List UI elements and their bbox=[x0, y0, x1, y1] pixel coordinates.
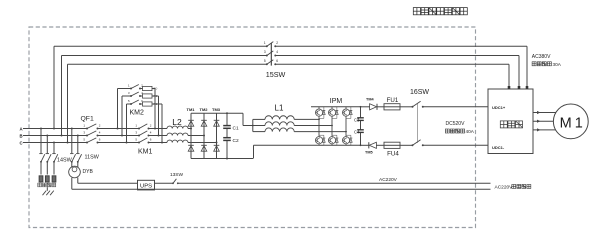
surge arrester 3 bbox=[52, 176, 56, 182]
svg-text:C2: C2 bbox=[233, 138, 239, 144]
UPS box bbox=[138, 180, 155, 190]
label UDC1- bbox=[492, 145, 505, 150]
label AC220V bbox=[379, 177, 398, 183]
wire DC+ jog down to splitter bbox=[243, 113, 253, 125]
wire IPM bottom rail feed bbox=[254, 144, 311, 146]
wire FU1 to 16SW bbox=[400, 106, 413, 108]
switch 11SW pole 1 drop bbox=[70, 128, 76, 168]
contactor KM2 pole 3 with precharge resistor bbox=[126, 99, 164, 144]
svg-text:IPM: IPM bbox=[330, 98, 343, 105]
transistor IPM IGBT top leg 1 bbox=[315, 107, 325, 119]
svg-text:FU4: FU4 bbox=[387, 150, 399, 157]
wire DC bottom rail from bridge bbox=[191, 158, 253, 160]
diode TM4 bbox=[370, 104, 377, 110]
label C4 bbox=[354, 129, 360, 134]
wire inverter to motor phase 3 bbox=[533, 129, 556, 131]
wire top bus phase 3 right vertical down to converter bbox=[508, 64, 510, 87]
switch 13SW bbox=[172, 179, 179, 184]
wire 16SW to inverter DC+ bbox=[423, 106, 488, 108]
label C1 bbox=[233, 126, 239, 132]
inverter box 变频器 bbox=[488, 89, 533, 154]
transistor IPM IGBT bottom leg 1 bbox=[315, 135, 325, 145]
wire IPM leg 2 midpoint bbox=[331, 118, 333, 135]
label KM1 bbox=[138, 148, 153, 155]
label KM2 bbox=[130, 109, 145, 116]
svg-text:6: 6 bbox=[276, 59, 278, 63]
svg-text:QF1: QF1 bbox=[81, 116, 94, 123]
label L1 bbox=[275, 104, 284, 113]
wire splitter vertical bbox=[252, 119, 254, 131]
capacitor C2 bbox=[223, 138, 231, 141]
wire AC220V control line 1 left bbox=[78, 182, 138, 184]
16SW link bbox=[417, 103, 419, 143]
svg-text:AC220V: AC220V bbox=[495, 185, 514, 191]
svg-text:KM1: KM1 bbox=[138, 148, 153, 155]
motor line arrow y121.2 bbox=[537, 120, 540, 123]
wire IPM top rail bbox=[311, 106, 361, 108]
svg-text:3: 3 bbox=[264, 50, 266, 54]
label DC520V bbox=[446, 121, 466, 127]
wire 16SW to inverter DC- bbox=[423, 144, 488, 146]
wire DYB secondary to control line 1 bbox=[77, 178, 79, 184]
svg-text:A: A bbox=[20, 126, 23, 131]
inductor L1 winding 2 bbox=[253, 122, 333, 127]
svg-text:DC520V: DC520V bbox=[446, 121, 466, 127]
svg-text:L1: L1 bbox=[275, 104, 284, 113]
surge arrester 1 bbox=[39, 176, 43, 182]
motor line arrow y129.9 bbox=[537, 128, 540, 131]
transistor IPM IGBT bottom leg 3 bbox=[342, 135, 352, 145]
ground symbol bbox=[43, 191, 54, 196]
label TM3 bbox=[212, 107, 221, 112]
svg-text:L2: L2 bbox=[172, 117, 182, 127]
node C label bbox=[20, 140, 23, 145]
label 13SW bbox=[170, 172, 184, 178]
svg-text:TM1: TM1 bbox=[187, 107, 196, 112]
dashed enclosure border of LVRT device bbox=[29, 27, 476, 228]
svg-text:1: 1 bbox=[264, 41, 266, 45]
label 14SW bbox=[57, 158, 73, 164]
svg-text:UDC1+: UDC1+ bbox=[492, 105, 506, 110]
contactor KM1 contacts bbox=[135, 123, 151, 143]
wire arrester bar to ground bbox=[46, 187, 48, 191]
label 16SW bbox=[410, 89, 429, 96]
wire AC220V control line 2 bbox=[72, 188, 491, 190]
wire TM4 to FU1 bbox=[377, 106, 384, 108]
wire FU4 to 16SW pole2 bbox=[400, 144, 413, 146]
wire lower bus phase B segments bbox=[23, 135, 204, 137]
wire top bus phase 1 right vertical down to converter bbox=[526, 46, 528, 87]
wire top bus phase 2 left vertical to lower bus bbox=[61, 56, 63, 137]
transformer DYB bbox=[69, 166, 81, 178]
motor line arrow y112.5 bbox=[537, 111, 540, 114]
capacitor C4 bbox=[357, 130, 364, 133]
switch 15SW three-pole disconnect on top bus bbox=[264, 41, 278, 65]
svg-text:UDC1-: UDC1- bbox=[492, 145, 505, 150]
wire top bus phase 3 horizontal bbox=[68, 63, 510, 65]
svg-text:4: 4 bbox=[276, 50, 278, 54]
wire AC220V control line 1 right bbox=[178, 182, 491, 184]
svg-text:15SW: 15SW bbox=[266, 70, 286, 79]
node A label bbox=[20, 126, 23, 131]
switch 16SW pole 1 bbox=[412, 101, 424, 108]
label C2 bbox=[233, 138, 239, 144]
fuse FU1 bbox=[384, 104, 400, 110]
wire top bus phase 3 left vertical to lower bus bbox=[67, 64, 69, 143]
svg-text:16SW: 16SW bbox=[410, 89, 429, 96]
wire arrester drop phase B with 14SW pole bbox=[46, 135, 52, 175]
label max current 30A bbox=[532, 62, 562, 67]
wire arrester drop phase C with 14SW pole bbox=[52, 142, 58, 175]
contactor KM2 pole 1 with precharge resistor bbox=[117, 84, 158, 130]
diode TM5 bbox=[369, 142, 377, 148]
title label 低电压穿越装置 bbox=[413, 8, 467, 15]
node B label bbox=[20, 133, 23, 138]
label 15SW bbox=[266, 70, 286, 79]
label 变频器 text bbox=[500, 121, 522, 128]
fuse FU4 bbox=[384, 142, 400, 148]
svg-text:AC220V: AC220V bbox=[379, 177, 398, 183]
svg-text:M 1: M 1 bbox=[560, 115, 583, 131]
switch 11SW pole 2 drop bbox=[76, 135, 82, 168]
wire top bus phase 1 left vertical to lower bus bbox=[53, 46, 55, 129]
label AC380V bbox=[532, 54, 551, 60]
wire DC top rail from bridge bbox=[191, 112, 243, 114]
wire inverter to motor phase 2 bbox=[533, 120, 553, 122]
circuit breaker QF1 contacts bbox=[83, 123, 100, 143]
svg-text:FU1: FU1 bbox=[387, 97, 399, 104]
wire IPM bottom rail bbox=[311, 144, 361, 146]
svg-text:B: B bbox=[20, 133, 23, 138]
label TM1 bbox=[187, 107, 196, 112]
wire top bus phase 1 horizontal bbox=[54, 45, 527, 47]
label FU1 bbox=[387, 97, 399, 104]
wire snubber capacitor branch bbox=[360, 106, 362, 146]
wire lower bus phase A segments bbox=[23, 128, 191, 130]
wire top rail to TM4 bbox=[361, 106, 370, 108]
wire UPS to 13SW bbox=[155, 182, 174, 184]
svg-text:C4: C4 bbox=[354, 129, 360, 134]
capacitor C1 bbox=[223, 126, 231, 129]
svg-text:C: C bbox=[20, 140, 23, 145]
label UDC1+ bbox=[492, 105, 506, 110]
rectifier leg TM1 diodes bbox=[188, 113, 194, 158]
label TM5 bbox=[365, 151, 373, 155]
wire IPM leg 1 midpoint bbox=[318, 118, 320, 135]
svg-text:C1: C1 bbox=[233, 126, 239, 132]
label max current 40A bbox=[445, 129, 474, 134]
wire TM5 to FU4 bbox=[376, 144, 384, 146]
svg-text:C3: C3 bbox=[354, 117, 360, 122]
15SW mechanical link bbox=[270, 43, 272, 66]
label L2 bbox=[172, 117, 182, 127]
wire top bus phase 2 horizontal bbox=[62, 55, 520, 57]
wire IPM leg 3 midpoint bbox=[345, 118, 347, 135]
inductor L1 winding 1 bbox=[253, 116, 320, 121]
inductor L1 winding 3 bbox=[253, 128, 347, 133]
svg-text:KM2: KM2 bbox=[130, 109, 145, 116]
transistor IPM IGBT top leg 3 bbox=[342, 107, 352, 119]
surge arrester 2 bbox=[45, 176, 49, 182]
wire top bus phase 2 right vertical down to converter bbox=[518, 56, 520, 88]
inverter AC input terminal x509 bbox=[508, 86, 511, 89]
transistor IPM IGBT bottom leg 2 bbox=[328, 135, 338, 145]
wire DYB secondary to control line 2 bbox=[71, 178, 73, 190]
svg-text:13SW: 13SW bbox=[170, 172, 184, 178]
capacitor C3 bbox=[357, 118, 364, 121]
label 11SW bbox=[85, 155, 100, 161]
transistor IPM IGBT top leg 2 bbox=[328, 107, 338, 119]
inductor L2 three-phase reactor bbox=[167, 126, 188, 142]
wire inverter to motor phase 1 bbox=[533, 112, 556, 114]
label TM2 bbox=[200, 107, 209, 112]
svg-text:30A: 30A bbox=[553, 62, 562, 67]
arrester common bar bbox=[38, 183, 56, 187]
label QF1 bbox=[81, 116, 94, 123]
wire arrester drop phase A with 14SW pole bbox=[39, 128, 45, 175]
label AC220V control circuit bbox=[495, 185, 531, 191]
svg-text:40A: 40A bbox=[466, 129, 475, 134]
wire bottom rail to TM5 bbox=[361, 144, 369, 146]
label DYB bbox=[83, 169, 94, 175]
svg-text:2: 2 bbox=[276, 41, 278, 45]
label C3 bbox=[354, 117, 360, 122]
svg-text:DYB: DYB bbox=[83, 169, 94, 175]
svg-text:5: 5 bbox=[264, 59, 266, 63]
label TM4 bbox=[366, 98, 374, 102]
contactor KM2 pole 2 with precharge resistor bbox=[121, 91, 160, 137]
svg-text:14SW: 14SW bbox=[57, 158, 73, 164]
wire lower bus phase C segments bbox=[23, 142, 217, 144]
wire DC link capacitor branch bbox=[226, 112, 228, 159]
svg-text:AC380V: AC380V bbox=[532, 54, 551, 60]
inverter AC input terminal x527 bbox=[526, 86, 529, 89]
rectifier leg TM2 diodes bbox=[201, 113, 207, 158]
motor M1 bbox=[553, 104, 588, 139]
wire DC- jog up bbox=[253, 145, 255, 158]
inverter AC input terminal x519 bbox=[518, 86, 521, 89]
switch 16SW pole 2 bbox=[412, 140, 424, 147]
svg-text:11SW: 11SW bbox=[85, 155, 100, 161]
rectifier leg TM3 diodes bbox=[214, 113, 220, 158]
14SW mechanical link bbox=[37, 154, 58, 156]
svg-text:TM2: TM2 bbox=[200, 107, 209, 112]
svg-text:TM4: TM4 bbox=[366, 98, 374, 102]
label FU4 bbox=[387, 150, 399, 157]
svg-text:TM3: TM3 bbox=[212, 107, 221, 112]
svg-text:TM5: TM5 bbox=[365, 151, 373, 155]
label IPM bbox=[330, 98, 343, 105]
